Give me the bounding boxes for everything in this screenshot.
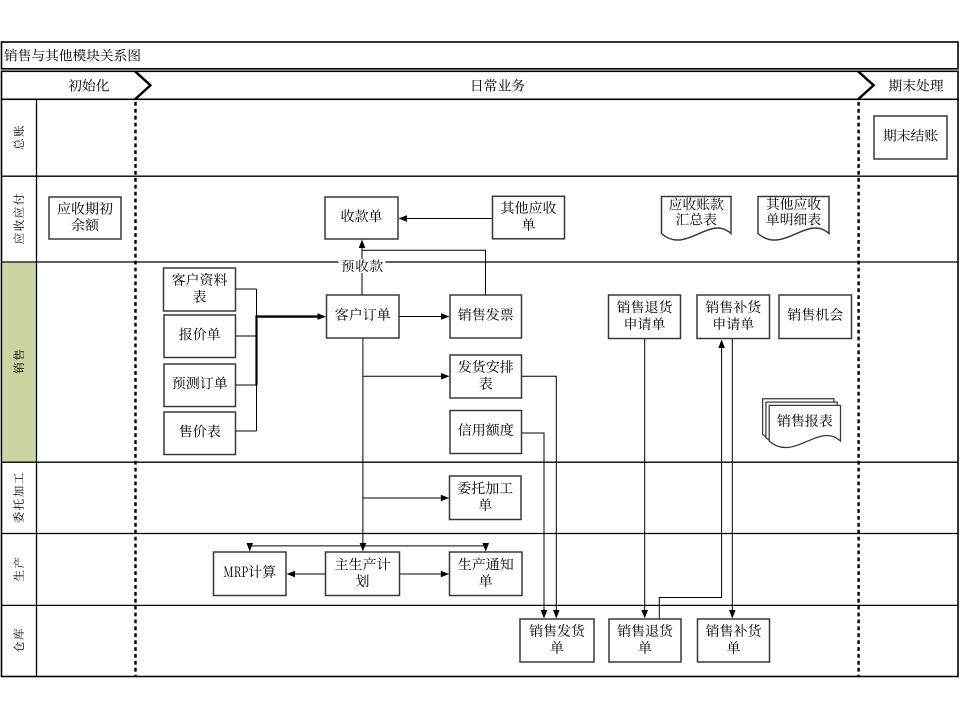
box 销售退货申请单 [609,295,681,339]
wire bus vertical upper [256,289,258,317]
wire 信用额度 to 销售发货单 [522,433,548,619]
box 信用额度 [450,411,522,454]
box 销售机会 [779,295,852,339]
box 应收期初余额 [49,197,121,239]
box 其他应收单 [493,196,565,239]
arrow into 生产通知单 [482,543,489,552]
box 销售发票 [450,295,522,338]
wire bus stub 报价单 [236,335,257,337]
box 主生产计划 [326,552,400,596]
green cell 销售 lane [2,263,36,462]
lane divider 1 [2,175,959,177]
box 预测订单 [164,364,236,407]
box 发货安排表 [450,355,522,398]
wire branch to 委托加工单 [363,495,449,502]
wire 销售发票 to 收款单 [359,240,486,296]
lane label 销售 [13,350,24,373]
lane label 仓库 [13,629,24,653]
wire 销售退货单 to 销售补货申请单 [659,340,725,620]
document 其他应收单明细表 [758,197,829,241]
box 报价单 [164,315,236,358]
lane divider 4 [2,533,959,535]
wire 销售补货申请单 to 销售补货单 [729,339,736,619]
wire 预收款 to 客户订单 [361,250,363,295]
box 生产通知单 [450,552,523,596]
dashed separator 2 [857,102,859,677]
wire bus vertical lower [256,385,258,431]
wire 客户订单 down trunk [362,338,364,546]
arrow into MRP计算 [246,543,253,552]
box 收款单 [325,197,398,239]
wire 发货安排表 to 销售发货单 [522,376,560,618]
wire branch to 发货安排表 [363,373,450,380]
lane label 委托加工 [13,473,24,523]
lane label 生产 [13,558,24,582]
wire 客户订单 to 销售发票 [399,313,450,320]
lane divider 2 [2,261,959,263]
label 预收款 [339,259,386,273]
title bar 销售与其他模块关系图 [2,42,959,69]
phase label 初始化 [68,79,109,92]
box 客户资料表 [164,268,236,311]
box 委托加工单 [450,476,522,520]
box 销售补货单 [698,619,770,662]
document 应收账款汇总表 [662,197,732,241]
wire bus stub 预测订单 [236,384,257,386]
box 客户订单 [327,295,400,338]
phase label 期末处理 [889,79,943,92]
box 销售补货申请单 [697,295,770,339]
dashed separator 1 [134,102,136,677]
lane divider 5 [2,604,959,606]
wire 主生产计划 to 生产通知单 [400,571,450,578]
box 销售退货单 [609,619,681,662]
wire bus stub 售价表 [236,430,257,432]
wire 主生产计划 to MRP计算 [287,571,326,578]
box 售价表 [164,412,236,455]
multi-document 销售报表 [763,399,841,448]
box 销售发货单 [520,619,594,662]
label column divider [36,99,38,676]
lane divider 3 [2,461,959,463]
wire distribution line 生产 [250,545,486,547]
wire bus stub 客户资料表 [236,288,257,290]
header band [2,71,959,99]
phase label 日常业务 [473,79,525,92]
swimlane frame [2,99,959,676]
box 期末结账 [874,116,947,159]
wire 销售退货申请单 to 销售退货单 [641,339,648,619]
wire bus vertical bold [255,316,257,386]
arrow into 主生产计划 [360,543,367,552]
box MRP计算 [214,552,287,596]
lane label 总账 [13,126,24,150]
wire 其他应收单 to 收款单 [399,215,492,222]
lane label 应收应付 [13,194,24,244]
bold arrow bus to 客户订单 [256,313,327,320]
chevron 1 [135,71,151,99]
chevron 2 [858,71,874,99]
